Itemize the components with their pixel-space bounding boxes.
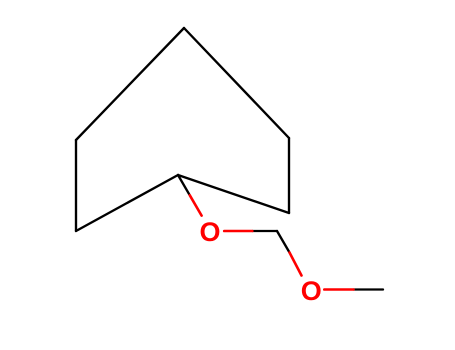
wire O2-CH3 black half [354,288,384,290]
wire ring bond apex-left [76,28,184,140]
wire O1-CH2 red half [224,230,252,233]
svg-text:O: O [199,217,220,247]
wire O1-CH2 black half [252,230,277,232]
wire ring bond bottom-right to C1 [178,175,289,213]
wire C1-O1 red half [190,195,202,215]
wire ring bond right vertical [288,138,290,213]
wire CH2-O2 red half [290,253,302,276]
wire O2-CH3 red half [324,288,353,291]
svg-text:O: O [301,276,322,306]
wire ring bond apex-right [184,28,289,138]
wire CH2-O2 black half [277,231,290,253]
wire ring bond bottom-left to C1 [76,175,178,231]
wire ring bond left vertical [75,140,77,231]
wire C1-O1 black half [178,175,190,195]
